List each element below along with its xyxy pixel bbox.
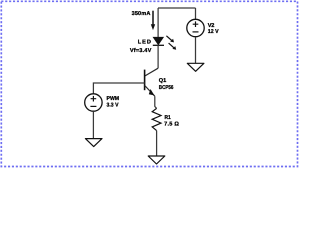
wire from V2 bottom to ground bbox=[195, 37, 197, 63]
wire emitter to resistor R1 bbox=[155, 96, 157, 108]
svg-text:350mA: 350mA bbox=[132, 11, 151, 17]
svg-text:BCP56: BCP56 bbox=[159, 85, 174, 91]
LED (Vf=3.4V) bbox=[153, 36, 176, 50]
ground (below R1) bbox=[148, 156, 165, 164]
wire from PWM bottom to ground bbox=[92, 111, 94, 138]
svg-text:Q1: Q1 bbox=[159, 78, 166, 84]
svg-text:12 V: 12 V bbox=[208, 29, 219, 35]
svg-text:3.3 V: 3.3 V bbox=[107, 103, 119, 109]
wire base: from PWM source to Q1 base bbox=[93, 83, 144, 94]
ground (below PWM) bbox=[85, 139, 102, 147]
current flow arrow (350mA annotation) bbox=[151, 11, 155, 30]
voltage source PWM 3.3V bbox=[85, 94, 102, 111]
wire vertical from LED cathode down to collector bbox=[157, 45, 159, 68]
ground (below V2) bbox=[187, 63, 204, 71]
wire vertical from top rail down to LED anode bbox=[157, 8, 159, 38]
svg-text:Vf=3.4V: Vf=3.4V bbox=[130, 47, 152, 54]
transistor Q1 BCP56 bbox=[145, 68, 159, 96]
svg-text:R1: R1 bbox=[165, 115, 171, 121]
resistor R1 7.5 ohm bbox=[152, 108, 161, 130]
voltage source V2 12V bbox=[187, 19, 204, 36]
wire from R1 bottom to ground bbox=[156, 131, 158, 156]
svg-text:PWM: PWM bbox=[107, 96, 120, 102]
svg-text:LED: LED bbox=[138, 40, 151, 46]
wire from top rail down to V2 bbox=[195, 8, 197, 19]
wire top horizontal from LED branch to V2 bbox=[158, 7, 196, 9]
svg-text:7.5 Ω: 7.5 Ω bbox=[164, 121, 179, 127]
